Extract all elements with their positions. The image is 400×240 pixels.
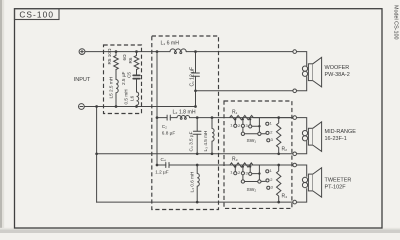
junction dots	[95, 50, 213, 203]
svg-text:PW-38A-2: PW-38A-2	[325, 72, 350, 78]
inductor L2	[177, 116, 190, 118]
wire: minus rail input to C1 foot	[84, 106, 195, 108]
svg-text:6Ω: 6Ω	[122, 54, 127, 61]
svg-text:R₂: R₂	[282, 147, 288, 153]
svg-text:Model CS-100: Model CS-100	[393, 5, 399, 39]
svg-text:TWEETER: TWEETER	[325, 178, 352, 184]
tap circles R3	[234, 172, 252, 176]
inductor L1	[170, 49, 186, 52]
svg-text:SW₁: SW₁	[247, 138, 257, 144]
svg-text:MID-RANGE: MID-RANGE	[325, 129, 357, 135]
woofer terminals	[293, 50, 297, 54]
page left edge shading	[0, 0, 2, 233]
wire: plus rail from L1 to woofer terminal	[186, 51, 293, 53]
inductor L3	[212, 118, 214, 154]
tap circles R1	[234, 124, 252, 128]
wire: woofer minus wire	[196, 90, 293, 92]
svg-text:R6: R6	[128, 57, 133, 63]
wire: R1 out to midrange terminal	[253, 117, 292, 119]
svg-text:C₁ 12 µF: C₁ 12 µF	[190, 67, 196, 87]
resistor R3	[230, 163, 253, 167]
svg-text:L6: L6	[130, 95, 135, 101]
wire: minus drop to bottom bus	[96, 107, 98, 203]
terminal circles	[293, 50, 297, 204]
title box CS-100	[15, 9, 60, 20]
svg-text:C₄: C₄	[161, 157, 166, 162]
svg-text:WOOFER: WOOFER	[325, 65, 350, 71]
svg-text:CS-100: CS-100	[19, 9, 54, 19]
dashed box: crossover network	[152, 36, 219, 210]
svg-text:SW₂: SW₂	[247, 187, 257, 193]
svg-text:L₃ 4.5 mH: L₃ 4.5 mH	[203, 131, 208, 152]
dashed box: input attenuator network	[104, 45, 142, 114]
svg-text:L₄ 0.6 mH: L₄ 0.6 mH	[189, 172, 194, 193]
svg-text:INPUT: INPUT	[74, 77, 91, 83]
resistor R5	[114, 52, 119, 70]
inductor L5	[116, 70, 118, 107]
dashed box: level control network	[224, 101, 292, 208]
resistor R4	[277, 165, 281, 202]
wire: mid wire L2 to midrange box	[190, 117, 293, 119]
switch SW1 contacts	[266, 122, 270, 142]
capacitor C2	[157, 115, 177, 120]
svg-text:16-23F-1: 16-23F-1	[325, 136, 347, 142]
inductor L6	[137, 92, 139, 107]
R1 tap stubs	[235, 119, 250, 125]
input terminal plus	[79, 49, 85, 55]
wire: R3 out to tweeter terminal	[253, 164, 293, 166]
svg-text:1.2 µF: 1.2 µF	[155, 170, 169, 175]
tweeter speaker symbol	[297, 165, 322, 202]
svg-text:R₁: R₁	[232, 109, 238, 115]
tweeter terminals	[293, 163, 297, 167]
wire: bottom bus	[97, 201, 293, 203]
resistor R1	[230, 115, 254, 119]
svg-text:0.5 mH: 0.5 mH	[124, 89, 129, 104]
svg-text:L5 2.5 mH: L5 2.5 mH	[109, 77, 114, 99]
midrange speaker symbol	[297, 118, 322, 154]
svg-text:C₃ 3.5 µF: C₃ 3.5 µF	[188, 131, 193, 151]
midrange terminals	[293, 116, 297, 120]
woofer speaker symbol	[297, 52, 322, 91]
svg-text:PT-102F: PT-102F	[325, 185, 347, 191]
capacitor C5	[133, 70, 140, 93]
svg-text:L₂ 1.8 mH: L₂ 1.8 mH	[173, 109, 196, 115]
capacitor C4	[157, 163, 197, 168]
junction dots attenuators	[234, 116, 280, 203]
switch SW2 wiring	[243, 165, 260, 180]
inductor L4	[197, 165, 199, 202]
wire: plus rail from input to L1	[85, 51, 170, 53]
resistor R6	[134, 52, 139, 70]
svg-text:R5 10Ω: R5 10Ω	[107, 48, 112, 65]
capacitor C1 vertical	[192, 52, 200, 91]
wire: link C1 foot to minus rail	[195, 91, 197, 107]
resistor R2	[277, 118, 281, 154]
page bottom edge shading	[0, 230, 400, 234]
wire: midrange return wire	[97, 153, 293, 155]
switch SW2 contacts	[266, 170, 270, 190]
svg-text:C5: C5	[127, 72, 132, 78]
svg-text:C₂: C₂	[162, 124, 167, 129]
svg-text:6.8 µF: 6.8 µF	[162, 130, 176, 135]
input terminal minus	[79, 104, 85, 110]
wire: feed line down from plus rail	[156, 52, 158, 165]
switch SW1 wiring	[243, 118, 260, 133]
svg-text:L₁ 6 mH: L₁ 6 mH	[161, 41, 180, 47]
capacitor C3 vertical	[193, 118, 201, 154]
wire: tweeter feed to box	[197, 164, 293, 166]
svg-text:R₃: R₃	[232, 157, 238, 163]
svg-text:R₄: R₄	[282, 193, 288, 199]
R3 tap stubs	[235, 166, 250, 172]
svg-text:2.5 µF: 2.5 µF	[121, 71, 126, 85]
